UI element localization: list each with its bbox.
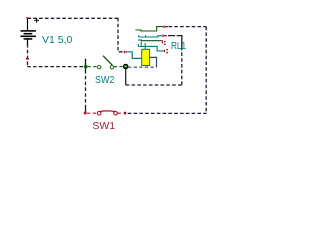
- wire battery- lead down: [27, 44, 29, 67]
- relay coil right pin path: [150, 57, 157, 67]
- wire battery+ top horizontal: [28, 17, 119, 19]
- node T stub above SW1 branch: [85, 59, 87, 70]
- label V1 5,0: [42, 35, 72, 45]
- wire bottom row right of SW1: [128, 112, 207, 114]
- pin B red: [162, 34, 166, 37]
- label RL1: [171, 41, 186, 51]
- relay coil RL1: [142, 49, 150, 65]
- junction node dot: [124, 64, 128, 68]
- switch SW1 right circle: [114, 111, 118, 115]
- battery plus sign: [34, 18, 39, 23]
- switch SW1 left pin: [84, 112, 87, 115]
- switch SW2 right contact circle: [110, 66, 113, 69]
- relay arm 3 (to pin C): [138, 39, 162, 42]
- relay coil left pin red pin: [124, 51, 127, 54]
- pin C red: [162, 40, 166, 45]
- battery top pin: [26, 17, 28, 19]
- switch SW1 left circle: [97, 111, 101, 115]
- wire lower run to relay pin B column: [126, 84, 182, 86]
- switch SW2 lever (open): [103, 56, 112, 65]
- wire right column down: [205, 27, 207, 114]
- relay coil left pin path: [127, 52, 141, 59]
- switch SW1 right pin: [124, 112, 127, 115]
- battery V1: [21, 18, 36, 45]
- wire pin A to right column: [169, 26, 207, 28]
- wire under coil (junction to coil right pin): [128, 66, 157, 68]
- wire bottom row to junction: [27, 66, 87, 68]
- pin D red: [164, 49, 168, 53]
- battery bottom pin: [26, 58, 29, 60]
- switch SW1 lead left: [87, 112, 97, 114]
- label SW2: [95, 75, 114, 85]
- wire vertical to relay coil left: [118, 18, 124, 52]
- pin A red: [164, 25, 168, 28]
- relay arm 2 (to pin B): [138, 35, 162, 37]
- wire SW1 branch down: [85, 70, 87, 107]
- switch SW2 lead left (green dashes): [88, 66, 97, 68]
- node ring at T junction: [84, 65, 87, 68]
- wire pin B to column: [168, 35, 182, 37]
- switch SW1 lever closed: [100, 110, 115, 113]
- relay arm 1 blade (to pin A): [135, 27, 163, 31]
- wire junction down to lower run: [125, 68, 127, 86]
- label SW1: [92, 121, 115, 131]
- switch SW2 left contact circle: [98, 66, 101, 69]
- relay core tick: [144, 43, 146, 49]
- relay arm 4 (coil top bar to pin D): [138, 42, 164, 51]
- switch SW2 lead right (green dashes): [114, 66, 124, 68]
- switch SW1 lead right: [118, 112, 124, 114]
- wire pin B column up: [181, 48, 183, 85]
